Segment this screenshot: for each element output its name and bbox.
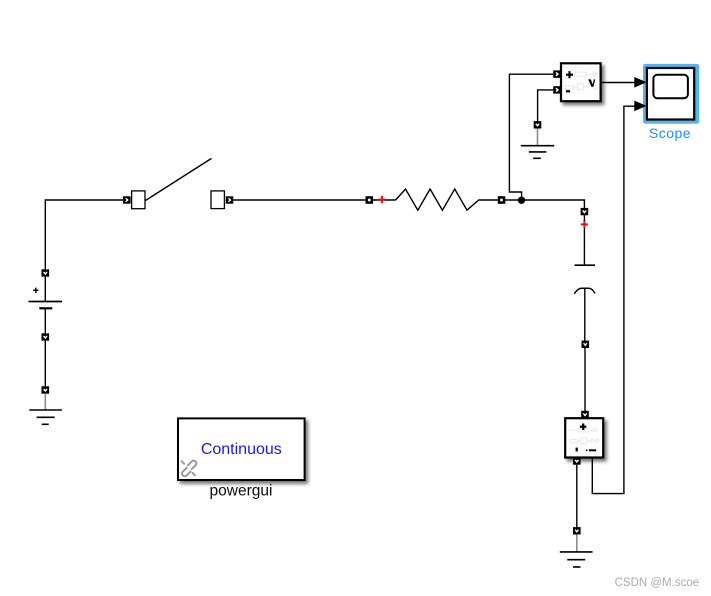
DC source port -: [42, 333, 50, 340]
wire: [505, 200, 584, 208]
wire: [509, 74, 553, 198]
breaker port 2: [226, 196, 234, 203]
wire: [44, 199, 46, 269]
voltage measurement port -: [553, 86, 561, 93]
ground port (vm): [534, 121, 542, 128]
broken library link icon: [182, 461, 197, 477]
resistor port 1: [366, 196, 374, 204]
wire: [44, 341, 46, 387]
current measurement block I1: [565, 418, 603, 457]
scope input port 1 arrow: [634, 77, 646, 88]
signal wire i: [592, 106, 634, 493]
resistor port 2: [498, 196, 506, 204]
current measurement port -: [573, 457, 581, 464]
powergui block: [178, 418, 305, 480]
wire: [583, 215, 585, 265]
junction: [518, 197, 525, 204]
current measurement port +: [581, 411, 589, 418]
DC source port +: [42, 269, 50, 276]
svg-text:Continuous: Continuous: [201, 441, 282, 458]
DC voltage source V1: [29, 277, 63, 334]
svg-text:CSDN @M.scoe: CSDN @M.scoe: [615, 577, 700, 589]
wire: [45, 199, 123, 201]
ground (battery): [29, 394, 62, 425]
breaker port 1: [123, 196, 131, 203]
capacitor branch port -: [582, 341, 590, 348]
ground (bottom): [560, 535, 593, 567]
capacitor branch port +: [581, 208, 589, 215]
red polarity + (resistor): [378, 196, 385, 203]
resistor R1: [396, 189, 498, 210]
ground port (battery): [42, 386, 50, 393]
scope input port 2 arrow: [634, 101, 646, 112]
svg-text:powergui: powergui: [210, 483, 273, 500]
wire: [373, 199, 396, 201]
breaker SW1: [132, 158, 225, 208]
svg-text:Scope: Scope: [649, 125, 691, 141]
ground (vm): [521, 129, 554, 159]
wire: [584, 288, 586, 340]
wire: [584, 348, 586, 411]
ground port (bottom): [573, 527, 581, 534]
wire: [538, 90, 554, 122]
voltage measurement port +: [553, 70, 561, 77]
voltage measurement block U1: [561, 63, 601, 101]
scope block: [647, 68, 694, 120]
signal wire v: [601, 82, 635, 84]
capacitor C1: [574, 265, 595, 294]
scope selection highlight: [643, 64, 699, 124]
red polarity + (capacitor): [581, 221, 588, 228]
wire: [576, 465, 578, 528]
wire: [233, 199, 366, 201]
